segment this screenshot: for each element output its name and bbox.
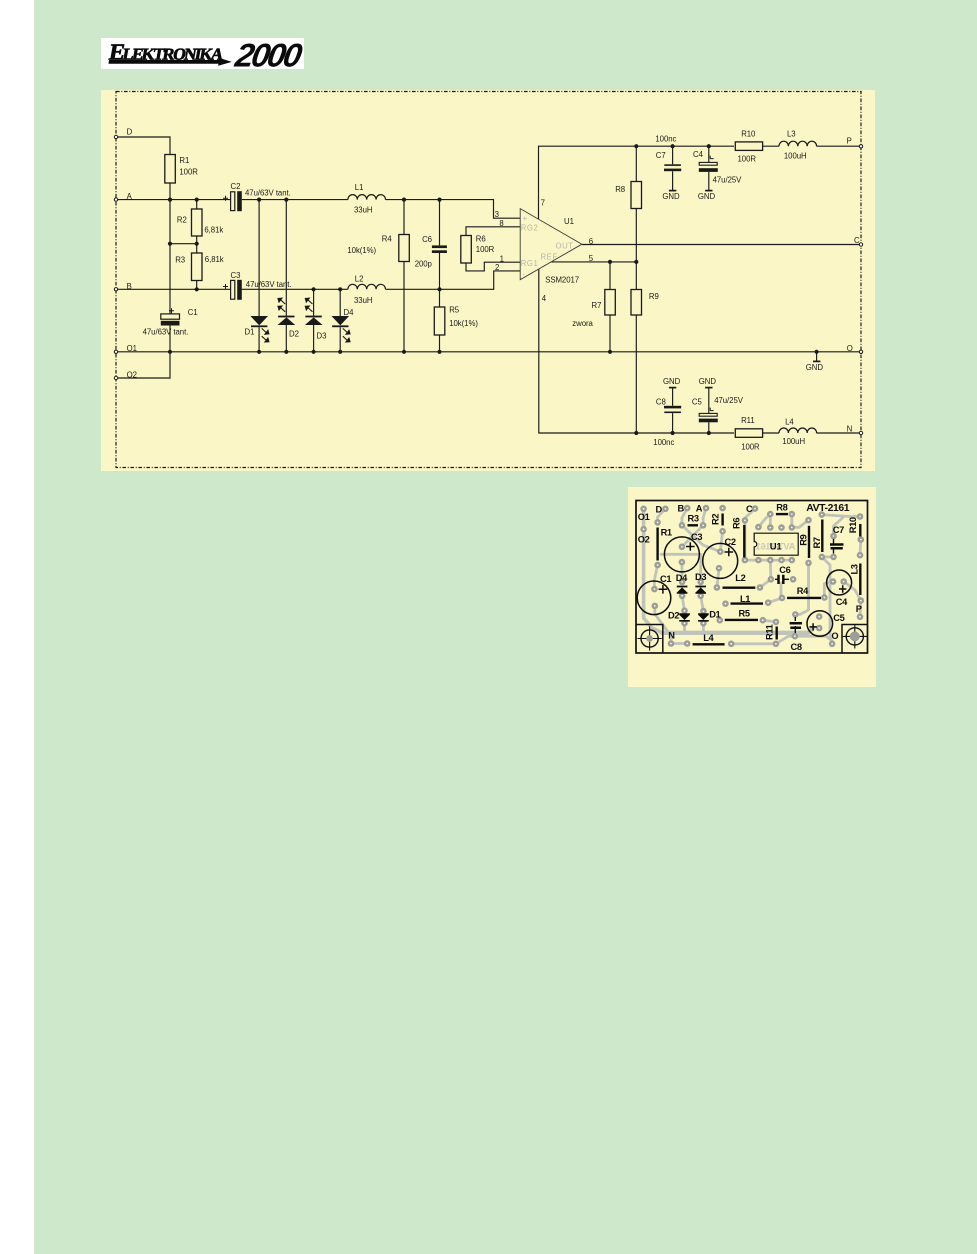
diode D1 glyph xyxy=(698,613,709,621)
trace C7 top diagonal xyxy=(834,518,844,537)
junction row O1 xyxy=(168,350,172,354)
wire C4 branch xyxy=(708,146,710,190)
trace L1 right to R4 left xyxy=(768,598,782,603)
wire pin 7 to top rail xyxy=(539,146,735,219)
trace C4 to L3 bottom xyxy=(844,582,861,601)
svg-text:100nc: 100nc xyxy=(653,438,674,447)
electrolytic C1 circle xyxy=(637,581,671,615)
svg-text:R2: R2 xyxy=(177,215,187,224)
capacitor C1 xyxy=(161,308,180,325)
svg-text:D2: D2 xyxy=(289,330,299,339)
trace C2 minus to L2 xyxy=(717,568,719,587)
wire R1 to row A xyxy=(169,183,171,200)
trace L4 to R11 bottom xyxy=(731,642,776,645)
svg-text:6,81k: 6,81k xyxy=(205,255,224,264)
svg-text:7: 7 xyxy=(541,199,545,208)
svg-text:L4: L4 xyxy=(785,418,794,427)
wire row B right to pin 2 xyxy=(386,271,521,289)
wire LED D2 vertical xyxy=(285,200,287,352)
svg-text:2: 2 xyxy=(495,263,499,272)
junction row B xyxy=(195,287,199,291)
component bar L4 xyxy=(693,643,725,645)
wire R2 R3 link xyxy=(170,236,197,253)
svg-text:R10: R10 xyxy=(848,517,858,533)
inductor L3 xyxy=(779,141,817,146)
trace left edge bus xyxy=(644,509,662,633)
trace R1 bottom to C1 plus xyxy=(654,565,657,589)
svg-text:D3: D3 xyxy=(695,572,706,582)
diode D3 glyph xyxy=(695,586,706,594)
svg-text:R2: R2 xyxy=(711,514,721,525)
capacitor C3 xyxy=(223,280,242,300)
svg-text:AVT-2161: AVT-2161 xyxy=(806,503,849,514)
svg-text:100R: 100R xyxy=(741,443,760,452)
wire row O1 xyxy=(116,351,861,353)
svg-text:1: 1 xyxy=(500,254,504,263)
component bar R2 xyxy=(721,514,723,526)
svg-text:GND: GND xyxy=(806,363,824,372)
svg-text:R11: R11 xyxy=(741,416,755,425)
trace C pad to U1 left xyxy=(745,509,755,560)
capacitor symbol C7 xyxy=(830,539,844,554)
svg-text:D1: D1 xyxy=(709,610,720,620)
resistor R2 xyxy=(192,209,203,236)
svg-text:8: 8 xyxy=(499,219,503,228)
ground symbol above C5 xyxy=(705,387,712,389)
wire row A middle xyxy=(242,199,348,201)
electrolytic C5 circle xyxy=(807,611,833,637)
board outline xyxy=(636,501,868,654)
terminal P xyxy=(859,145,862,148)
svg-text:5: 5 xyxy=(589,254,594,263)
trace C8 bottom to O pad xyxy=(795,636,832,644)
resistor R7 xyxy=(605,290,616,316)
mounting square right xyxy=(842,624,868,653)
wire O2 stub xyxy=(116,352,170,378)
wire R2 top stub xyxy=(196,200,198,209)
wire GND stub at O xyxy=(816,352,818,361)
magazine logo ELEKTRONIKA 2000 xyxy=(101,38,304,69)
svg-text:6,81k: 6,81k xyxy=(204,225,223,234)
component bar R6 xyxy=(743,525,745,558)
svg-text:R1: R1 xyxy=(661,528,672,538)
terminal N xyxy=(859,431,862,434)
svg-text:C3: C3 xyxy=(691,532,702,542)
svg-text:C1: C1 xyxy=(660,574,671,584)
svg-text:U1: U1 xyxy=(770,541,783,552)
svg-text:R9: R9 xyxy=(649,292,659,301)
terminal O2 xyxy=(114,376,117,379)
svg-text:C1: C1 xyxy=(188,308,198,317)
svg-text:L2: L2 xyxy=(355,275,364,284)
wire C6 R5 vertical xyxy=(439,200,441,352)
wire OUT row C xyxy=(582,244,861,246)
svg-text:RG1: RG1 xyxy=(521,259,539,268)
trace L3 bottom to P pad xyxy=(859,601,863,617)
PCB layout panel xyxy=(628,487,876,687)
wire bottom rail right xyxy=(763,432,861,434)
trace C6 to R4 left vertical xyxy=(780,583,783,598)
svg-text:OUT: OUT xyxy=(556,241,574,250)
trace A to R3 right xyxy=(703,508,706,525)
ground symbol at node O xyxy=(813,360,820,362)
svg-text:C4: C4 xyxy=(693,150,704,159)
svg-text:A: A xyxy=(696,503,703,513)
svg-text:C6: C6 xyxy=(779,565,790,575)
svg-text:R4: R4 xyxy=(382,234,393,243)
svg-text:U1: U1 xyxy=(564,217,574,226)
svg-text:-: - xyxy=(523,269,526,278)
ground symbol above C8 xyxy=(669,387,676,389)
LED D1 xyxy=(250,316,269,342)
wire R6 bottom to pin 1 xyxy=(466,262,520,271)
resistor R6 xyxy=(461,236,472,264)
capacitor C4 xyxy=(699,156,718,172)
inductor L4 xyxy=(779,428,817,433)
svg-text:100uH: 100uH xyxy=(782,437,805,446)
electrolytic C2 circle xyxy=(703,543,738,578)
component bar L3 xyxy=(859,564,861,596)
svg-text:A: A xyxy=(127,192,133,201)
trace U1 bottom bus xyxy=(745,559,792,562)
component bar R3 xyxy=(688,524,699,526)
junction bottom rail xyxy=(634,431,638,435)
electrolytic C4 circle xyxy=(827,570,852,595)
component bar R8 xyxy=(776,513,788,515)
wire C5 branch xyxy=(708,388,710,433)
electrolytic C3 circle xyxy=(664,537,699,572)
svg-text:D: D xyxy=(127,128,133,137)
IC U1 body xyxy=(754,533,798,555)
trace B to R3 left xyxy=(682,508,687,525)
trace R5 right to R11 top xyxy=(763,620,776,622)
svg-text:10k(1%): 10k(1%) xyxy=(347,246,376,255)
svg-text:C2: C2 xyxy=(231,182,241,191)
wire LED D3 vertical xyxy=(313,289,315,352)
trace R9 bottom to C8 top xyxy=(795,563,808,615)
svg-text:10k(1%): 10k(1%) xyxy=(449,319,478,328)
svg-text:100R: 100R xyxy=(738,154,757,163)
trace O2 pad stub xyxy=(642,529,645,556)
svg-text:GND: GND xyxy=(662,192,680,201)
svg-text:L4: L4 xyxy=(703,633,714,643)
trace R2 bottom to C2 plus xyxy=(720,531,722,552)
trace L2 right to C6 left xyxy=(760,579,771,587)
dash-dot border frame xyxy=(116,92,861,468)
wire C8 branch xyxy=(672,388,674,433)
svg-text:R6: R6 xyxy=(476,234,486,243)
svg-text:R8: R8 xyxy=(615,185,625,194)
svg-text:2000: 2000 xyxy=(232,38,304,69)
wire row B left xyxy=(116,288,231,290)
svg-text:O: O xyxy=(847,344,853,353)
trace bottom bus xyxy=(662,628,813,633)
schematic panel xyxy=(101,90,875,471)
svg-text:R3: R3 xyxy=(175,255,185,264)
resistor R1 xyxy=(165,155,176,184)
mounting hole left pad xyxy=(646,635,653,642)
svg-text:N: N xyxy=(847,424,853,433)
capacitor C8 xyxy=(664,406,681,413)
svg-text:3: 3 xyxy=(495,210,499,219)
terminal O xyxy=(859,350,862,353)
svg-text:REF: REF xyxy=(541,253,558,262)
svg-text:C5: C5 xyxy=(833,613,844,623)
svg-text:R10: R10 xyxy=(741,129,756,138)
svg-text:O2: O2 xyxy=(127,370,137,379)
trace R3 right to C3 plus xyxy=(682,525,703,547)
svg-text:R5: R5 xyxy=(449,306,460,315)
component bar R7 xyxy=(821,520,823,553)
junction R2 R3 link xyxy=(168,242,172,246)
svg-text:D4: D4 xyxy=(344,308,355,317)
trace mid horizontal through C3 xyxy=(661,554,701,582)
svg-text:P: P xyxy=(847,137,852,146)
wire pin 4 to bottom rail xyxy=(539,269,734,433)
svg-text:O: O xyxy=(831,631,838,641)
resistor R3 xyxy=(192,253,203,281)
resistor R9 xyxy=(631,290,642,316)
terminal A xyxy=(114,198,117,201)
diode D2 glyph xyxy=(679,613,690,621)
trace N to L4 xyxy=(671,642,687,645)
svg-text:C3: C3 xyxy=(231,271,241,280)
LED D4 xyxy=(332,316,351,342)
svg-text:47u/25V: 47u/25V xyxy=(713,176,743,185)
component bar R5 xyxy=(725,619,758,621)
svg-text:L1: L1 xyxy=(355,183,364,192)
mounting square left xyxy=(636,625,663,654)
LED D2 xyxy=(278,298,296,325)
svg-text:C5: C5 xyxy=(692,397,703,406)
svg-text:100R: 100R xyxy=(179,167,198,176)
svg-text:GND: GND xyxy=(699,377,717,386)
trace R3 left to C2 plus xyxy=(682,525,720,551)
component bar L2 xyxy=(723,587,756,589)
svg-text:47u/63V tant.: 47u/63V tant. xyxy=(143,328,189,337)
svg-text:P: P xyxy=(856,604,862,614)
svg-text:SSM2017: SSM2017 xyxy=(545,275,579,284)
wire D row xyxy=(116,137,170,155)
svg-text:C4: C4 xyxy=(836,597,848,607)
LED D3 xyxy=(305,298,323,325)
svg-text:D1: D1 xyxy=(245,328,255,337)
wire R8 R9 vertical xyxy=(635,146,637,433)
svg-text:C: C xyxy=(746,504,753,514)
svg-text:100uH: 100uH xyxy=(784,152,807,161)
terminal O1 xyxy=(114,350,117,353)
trace R7 bottom down to O pad xyxy=(822,557,832,644)
svg-text:C8: C8 xyxy=(656,397,666,406)
junction row A xyxy=(168,198,172,202)
svg-text:R4: R4 xyxy=(797,586,809,596)
wire row A right to pin 3 xyxy=(386,200,521,219)
wire top rail right xyxy=(763,145,861,147)
ground symbol under C7 xyxy=(669,190,676,192)
svg-text:200p: 200p xyxy=(415,259,433,268)
wire LED D1 vertical xyxy=(258,200,260,352)
capacitor C7 xyxy=(664,164,681,171)
trace R4 right to C4 xyxy=(824,582,833,598)
svg-text:C8: C8 xyxy=(791,642,802,652)
svg-text:C7: C7 xyxy=(833,525,844,535)
resistor R10 xyxy=(735,142,762,151)
svg-text:zwora: zwora xyxy=(572,319,593,328)
component bar R4 xyxy=(787,597,821,599)
svg-text:B: B xyxy=(678,504,685,514)
junction top rail xyxy=(634,144,638,148)
svg-text:47u/25V: 47u/25V xyxy=(714,396,744,405)
wire C7 branch xyxy=(672,146,674,190)
trace C3 minus to D4 xyxy=(681,562,684,582)
trace D1 bottom to bus xyxy=(702,623,705,633)
svg-text:R6: R6 xyxy=(732,518,742,529)
svg-text:B: B xyxy=(127,282,132,291)
junction pin5 row xyxy=(608,260,612,264)
inductor L2 xyxy=(348,284,386,289)
component bar L1 xyxy=(731,602,764,604)
capacitor symbol C8 xyxy=(790,617,802,633)
svg-text:O2: O2 xyxy=(638,535,650,545)
trace C1 minus to N pad xyxy=(655,606,671,644)
svg-text:C7: C7 xyxy=(656,151,666,160)
pad holes xyxy=(643,507,862,644)
svg-text:C2: C2 xyxy=(725,537,736,547)
svg-text:100R: 100R xyxy=(476,245,495,254)
svg-text:+: + xyxy=(523,214,528,223)
wire LED D4 vertical xyxy=(339,289,341,352)
svg-text:R1: R1 xyxy=(179,156,189,165)
svg-text:D2: D2 xyxy=(668,610,679,620)
trace D to R1 xyxy=(658,509,666,523)
svg-text:47u/63V tant.: 47u/63V tant. xyxy=(246,280,292,289)
svg-text:N: N xyxy=(668,631,675,641)
svg-text:L2: L2 xyxy=(735,573,745,583)
svg-text:L3: L3 xyxy=(850,564,860,574)
inductor L1 xyxy=(348,195,386,200)
trace U1 pad to C6 left xyxy=(769,560,772,579)
terminal B xyxy=(114,288,117,291)
terminal C xyxy=(859,243,862,246)
svg-text:R7: R7 xyxy=(812,537,822,548)
capacitor C5 xyxy=(699,408,718,423)
capacitor symbol C6 xyxy=(775,575,789,584)
resistor R11 xyxy=(735,429,762,438)
trace R7 top to corner pad xyxy=(822,515,860,517)
pads xyxy=(640,505,864,647)
svg-text:6: 6 xyxy=(589,237,593,246)
svg-text:D4: D4 xyxy=(676,573,688,583)
svg-text:C: C xyxy=(854,236,860,245)
plus marks xyxy=(659,542,847,630)
component bar R9 xyxy=(808,526,810,558)
wire R4 vertical xyxy=(403,200,405,352)
svg-text:R5: R5 xyxy=(739,609,750,619)
trace R11 bottom to C8 bottom xyxy=(776,636,795,644)
wire pin 8 to R6 xyxy=(466,227,520,236)
wire row B middle xyxy=(242,288,348,290)
wire vertical node to C1 xyxy=(169,200,171,314)
svg-text:33uH: 33uH xyxy=(354,206,372,215)
wire R7 vertical xyxy=(609,262,611,352)
trace R7 bottom to C7 bottom xyxy=(822,556,834,559)
svg-text:47u/63V tant.: 47u/63V tant. xyxy=(245,188,291,197)
wire C1 bottom to row O1 xyxy=(169,326,171,352)
svg-text:R9: R9 xyxy=(799,534,809,545)
diode D4 glyph xyxy=(677,586,688,594)
svg-text:O1: O1 xyxy=(638,512,650,522)
wire row A left xyxy=(116,199,231,201)
wire R3 bottom stub xyxy=(196,281,198,290)
trace R8 right vertical xyxy=(790,514,793,527)
resistor R8 xyxy=(631,182,642,209)
component bar R1 xyxy=(656,528,658,561)
wire REF pin 5 row xyxy=(552,261,637,263)
trace D4 to D2 xyxy=(682,596,684,611)
svg-text:R3: R3 xyxy=(688,513,699,523)
capacitor C2 xyxy=(223,191,242,211)
trace R10 bottom to L3 top xyxy=(859,540,863,556)
ground symbol under C4 xyxy=(705,190,712,192)
svg-text:GND: GND xyxy=(698,192,716,201)
svg-text:R8: R8 xyxy=(776,503,787,513)
op-amp U1 triangle xyxy=(520,209,582,280)
trace R9 top to U1 pad xyxy=(792,520,809,527)
svg-text:33uH: 33uH xyxy=(354,296,372,305)
mounting hole right pad xyxy=(850,631,860,641)
component bar R11 xyxy=(776,627,778,640)
svg-text:D: D xyxy=(656,504,663,514)
trace U1 pad diagonal to R8 left xyxy=(758,514,770,527)
component bar R10 xyxy=(859,524,861,537)
trace D2 bottom to bus xyxy=(683,623,686,633)
svg-text:D3: D3 xyxy=(317,332,327,341)
svg-text:4: 4 xyxy=(542,294,547,303)
svg-text:R11: R11 xyxy=(765,624,775,640)
svg-text:L3: L3 xyxy=(787,129,796,138)
capacitor C6 xyxy=(432,245,447,253)
resistor R5 xyxy=(434,307,445,335)
svg-text:O1: O1 xyxy=(127,344,137,353)
svg-text:RG2: RG2 xyxy=(521,224,539,233)
svg-text:GND: GND xyxy=(663,377,681,386)
svg-text:R7: R7 xyxy=(592,301,602,310)
terminal D xyxy=(114,135,117,138)
trace R8 left vertical xyxy=(769,514,772,528)
resistor R4 xyxy=(399,235,410,262)
svg-text:C6: C6 xyxy=(422,235,432,244)
svg-text:L1: L1 xyxy=(740,594,750,604)
svg-text:100nc: 100nc xyxy=(655,134,676,143)
trace D3 to D1 xyxy=(701,596,704,611)
